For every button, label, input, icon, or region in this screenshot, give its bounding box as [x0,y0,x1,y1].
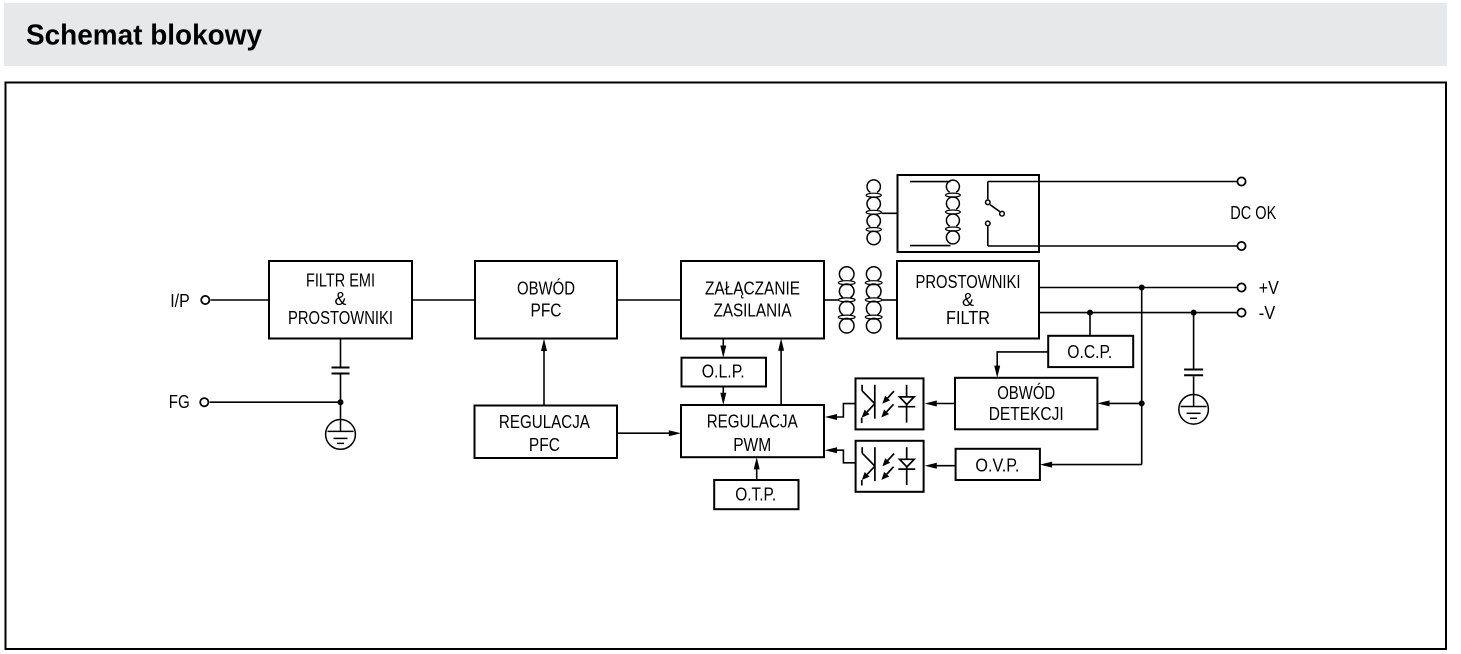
arrow into OBWOD DETEKCJI top [994,366,1000,378]
relay coil bottom lead [910,245,951,247]
optocoupler U1 [856,378,924,429]
block O.C.P. [1048,336,1133,367]
arrow ZALACZANIE to OLP [720,339,726,358]
capacitor C1 [332,368,350,374]
block FILTR EMI & PROSTOWNIKI [269,261,412,339]
arrow REGULACJA PFC to OBWOD PFC [541,339,547,406]
transformer T1 secondary winding [865,267,882,333]
wire optocoupler U2 to REGULACJA PWM [825,447,856,463]
wire FILTR EMI to OBWOD PFC [412,299,475,301]
block OBWOD PFC [475,261,617,339]
svg-text:O.V.P.: O.V.P. [975,456,1019,476]
svg-text:ZASILANIA: ZASILANIA [714,301,792,321]
svg-text:PFC: PFC [529,435,560,455]
wire OCP to OBWOD DETEKCJI [997,352,1048,368]
arrow OTP to REGULACJA PWM [754,457,760,480]
wire FG to ground node [210,401,341,403]
svg-text:FILTR EMI: FILTR EMI [306,271,375,291]
optocoupler U2 [856,441,924,492]
capacitor C1 lead from FILTR EMI [340,339,342,367]
svg-text:-V: -V [1259,303,1276,323]
svg-text:+V: +V [1259,278,1279,298]
wire FG node to ground [340,402,342,420]
svg-text:OBWÓD: OBWÓD [997,382,1055,403]
wire -V junction to capacitor C2 [1193,313,1195,369]
wire +V trunk vertical [1141,288,1143,465]
wire -V junction to OCP [1089,313,1091,336]
relay coil top lead [910,181,951,183]
svg-text:Schemat blokowy: Schemat blokowy [26,20,262,52]
arrow trunk to OVP [1040,462,1142,468]
arrow OLP to REGULACJA PWM [720,387,726,406]
svg-text:PWM: PWM [733,435,771,455]
relay switch blade [990,205,1000,212]
wire optocoupler U1 to REGULACJA PWM [825,404,856,420]
block OBWOD DETEKCJI [955,378,1097,430]
svg-text:I/P: I/P [170,291,190,311]
arrow trunk to OBWOD DETEKCJI [1097,400,1141,406]
wire capacitor C2 to ground [1193,376,1195,395]
ground earth symbol left [326,420,356,450]
arrow OVP to optocoupler U2 [925,463,956,469]
relay box K1 [898,175,1040,252]
relay switch upper lead [987,182,989,200]
block REGULACJA PWM [681,405,824,457]
transformer T1 primary winding [838,267,855,333]
svg-text:REGULACJA: REGULACJA [707,412,798,432]
svg-text:O.T.P.: O.T.P. [735,484,776,504]
svg-text:OBWÓD: OBWÓD [517,278,575,299]
node -V to OCP junction [1087,310,1093,316]
arrow REGULACJA PWM to ZALACZANIE [778,339,784,406]
terminal DC OK minus [1237,242,1245,250]
wire relay to DC OK minus [988,245,1238,247]
capacitor C2 [1184,370,1203,376]
svg-text:&: & [962,290,974,310]
wire ZALACZANIE to transformer primary [824,299,838,301]
terminal -V [1237,303,1275,323]
block O.V.P. [956,449,1040,480]
node +V trunk junction [1139,285,1145,291]
wire relay to DC OK plus [988,181,1238,183]
block ZALACZANIE ZASILANIA [681,261,824,339]
node trunk to OBWOD DETEKCJI [1139,400,1145,406]
svg-text:PFC: PFC [531,301,562,321]
terminal DC OK plus [1237,177,1245,185]
svg-text:FILTR: FILTR [946,308,990,328]
arrow REGULACJA PFC to REGULACJA PWM [617,430,681,436]
svg-text:DETEKCJI: DETEKCJI [989,404,1064,424]
wire OBWOD PFC to ZALACZANIE [617,299,681,301]
node FG junction [338,399,344,405]
relay contact upper [986,200,991,205]
relay contact moving [1000,211,1005,216]
ground earth symbol right [1179,395,1209,425]
wire transformer secondary to PROSTOWNIKI [882,299,897,301]
terminal +V [1237,278,1278,298]
node -V to capacitor junction [1191,310,1197,316]
svg-text:O.C.P.: O.C.P. [1067,342,1112,362]
relay coil winding [946,180,961,244]
relay contact lower [986,221,991,226]
terminal FG [169,392,209,412]
block PROSTOWNIKI & FILTR [897,261,1039,339]
svg-text:REGULACJA: REGULACJA [499,412,590,432]
wire PROSTOWNIKI to -V [1039,312,1237,314]
block REGULACJA PFC [475,406,618,459]
block O.L.P. [682,358,767,387]
svg-text:ZAŁĄCZANIE: ZAŁĄCZANIE [705,279,800,299]
wire I/P to FILTR EMI [211,299,269,301]
wire aux winding to relay box [881,212,897,214]
svg-text:DC OK: DC OK [1230,203,1276,223]
wire capacitor C1 to FG node [340,375,342,403]
svg-text:FG: FG [169,392,190,412]
terminal I/P [170,291,209,311]
block O.T.P. [714,480,798,509]
wire PROSTOWNIKI to +V [1039,287,1237,289]
transformer T1 auxiliary winding [866,180,881,245]
title bar [4,3,1447,66]
arrow OBWOD DETEKCJI to optocoupler U1 [925,401,955,407]
svg-text:&: & [334,289,346,309]
relay switch lower lead [987,226,989,246]
svg-text:PROSTOWNIKI: PROSTOWNIKI [288,308,393,328]
svg-text:O.L.P.: O.L.P. [702,362,745,382]
